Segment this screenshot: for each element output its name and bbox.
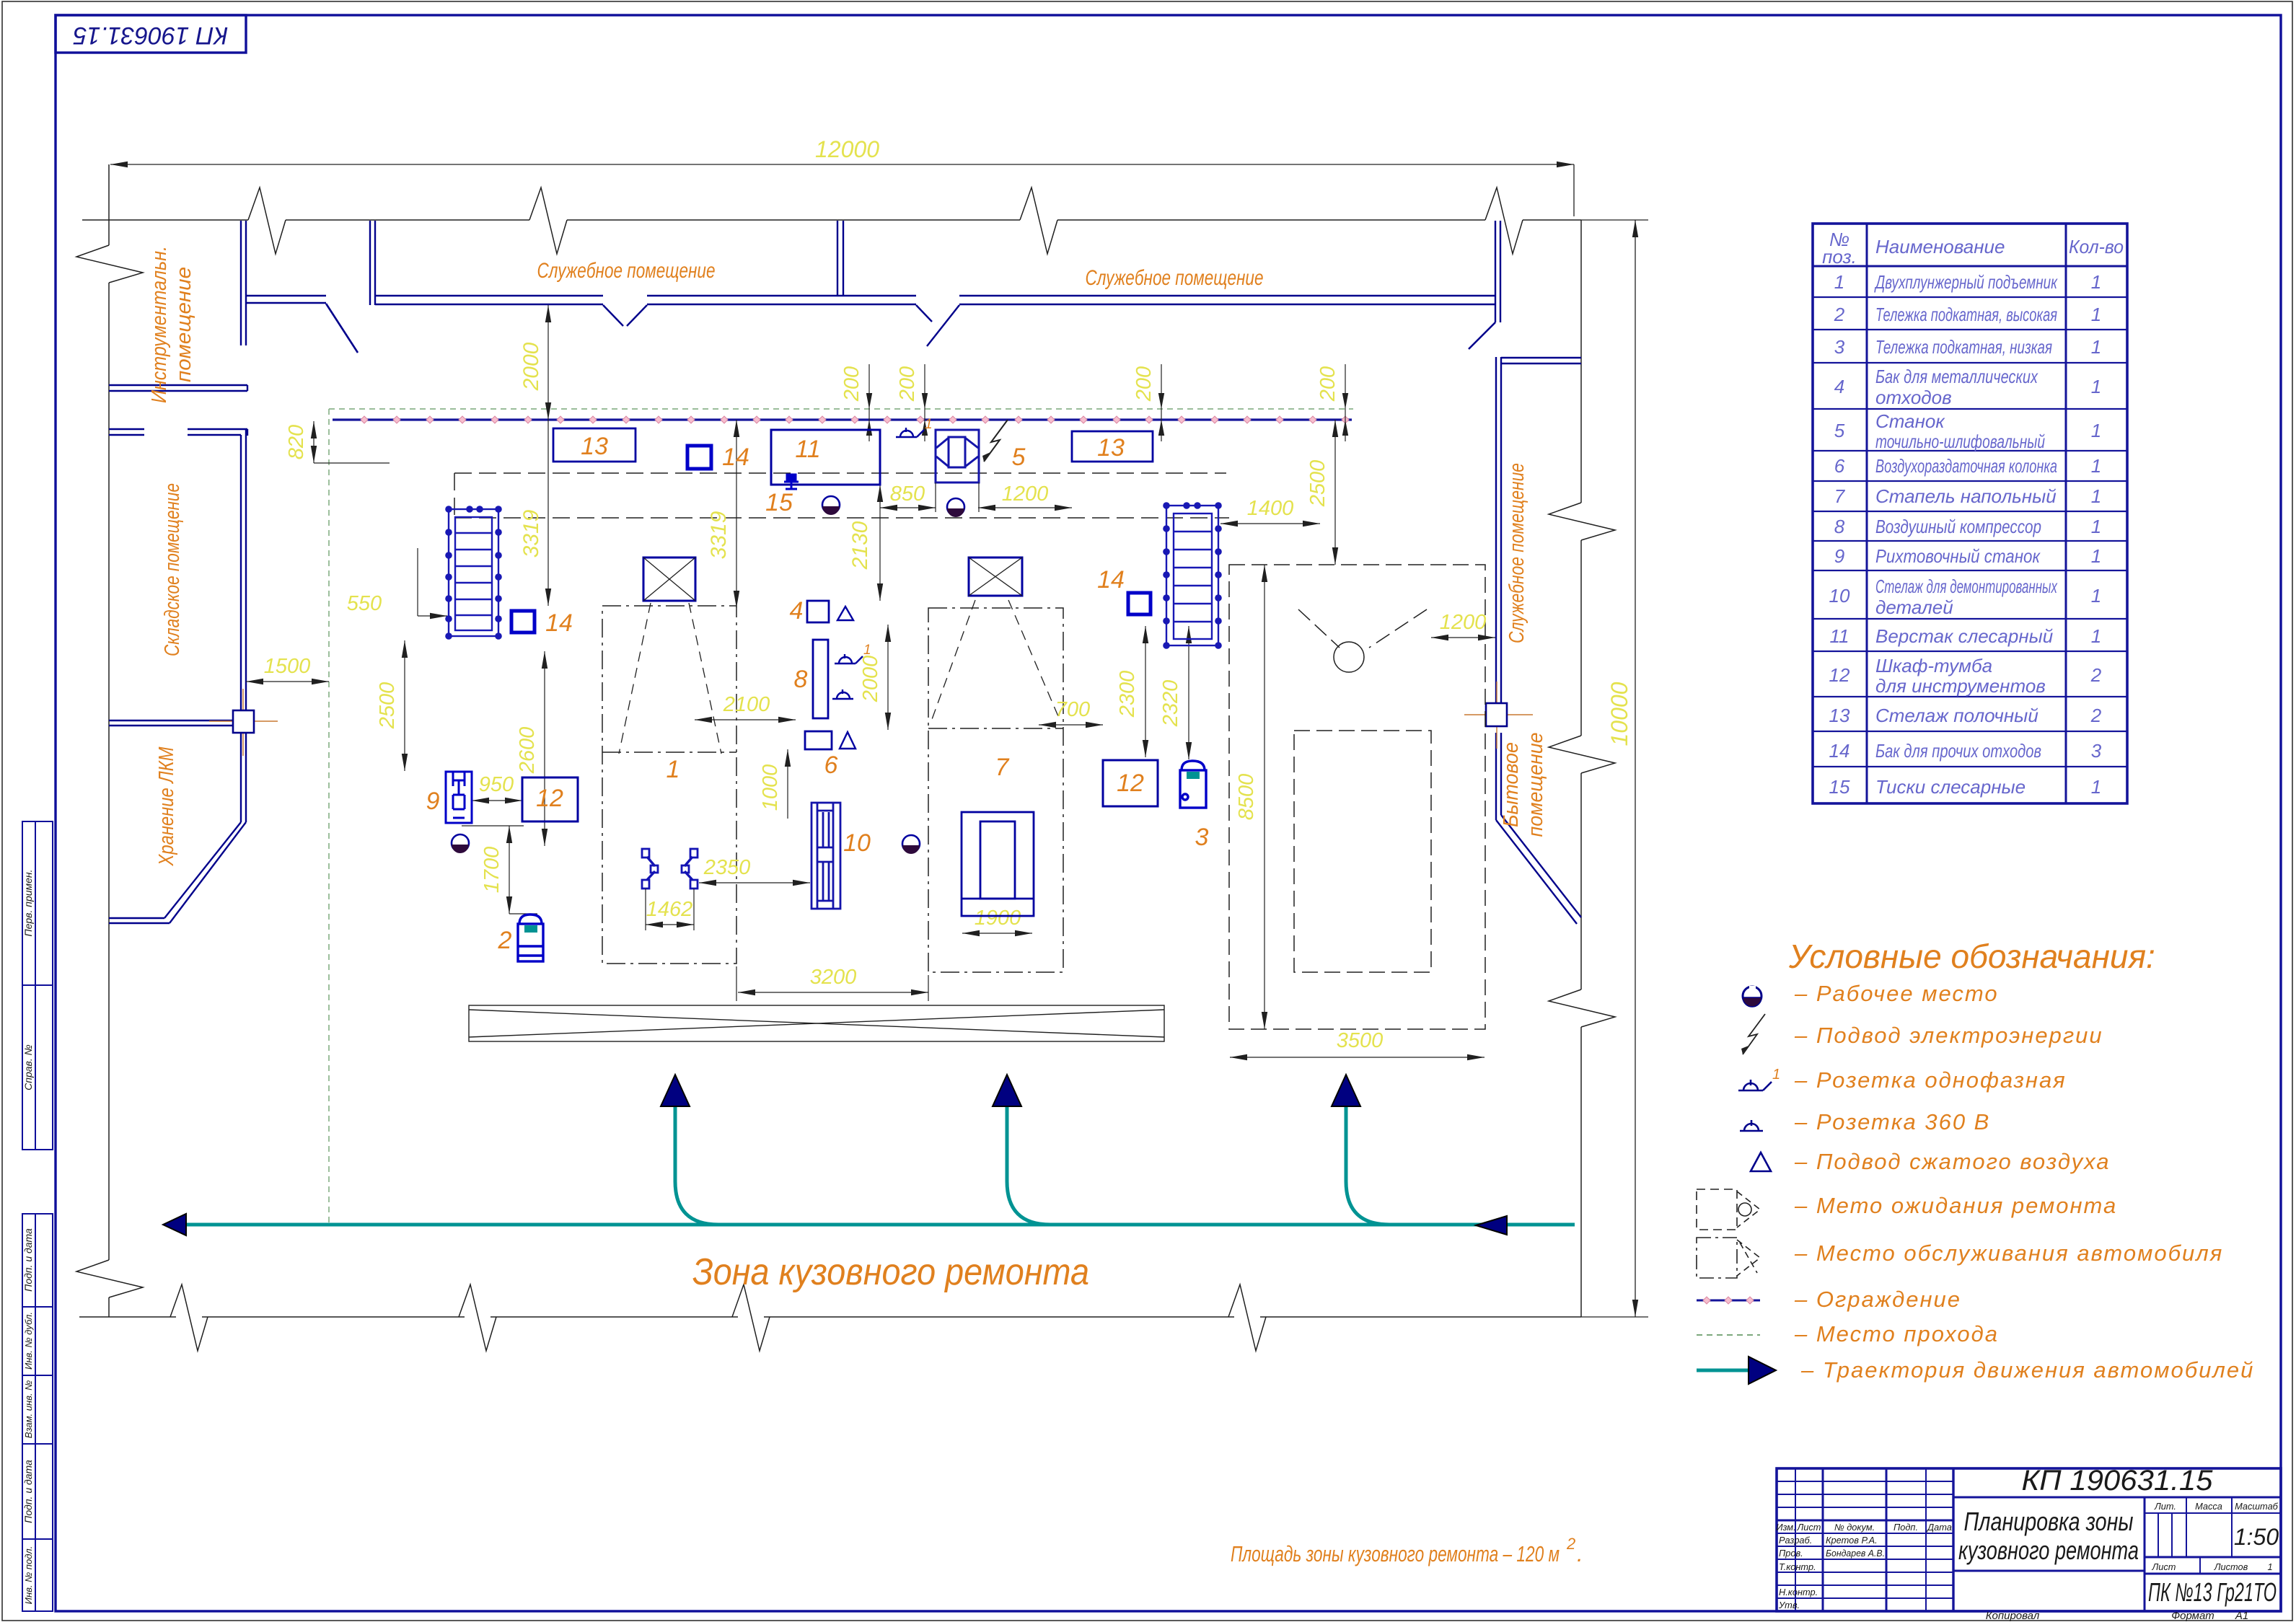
conveyor strip — [469, 1005, 1164, 1041]
svg-text:Разраб.: Разраб. — [1779, 1535, 1812, 1546]
dim 2130 — [879, 485, 881, 601]
legend: розетка однофазная symbol — [1738, 1080, 1772, 1090]
svg-text:Изм.: Изм. — [1776, 1522, 1795, 1533]
dim 2000 right — [887, 625, 889, 730]
svg-text:2000: 2000 — [859, 656, 882, 703]
svg-text:11: 11 — [795, 436, 820, 463]
svg-text:8500: 8500 — [1235, 774, 1258, 821]
svg-text:3500: 3500 — [1337, 1029, 1384, 1052]
svg-text:Масса: Масса — [2195, 1501, 2222, 1512]
svg-text:1: 1 — [2091, 625, 2101, 647]
dim 8500 — [1264, 565, 1265, 1029]
svg-text:ПК №13 Гр21ТО: ПК №13 Гр21ТО — [2148, 1577, 2277, 1607]
svg-text:2350: 2350 — [703, 856, 751, 879]
svg-text:1500: 1500 — [264, 655, 311, 678]
svg-text:1200: 1200 — [1002, 482, 1049, 506]
equipment specification table — [1813, 224, 2127, 803]
break zigzag bottom 1 — [170, 1284, 208, 1351]
floor frame machine 7 — [962, 812, 1034, 916]
dim 2000/3319 left chain — [547, 305, 549, 606]
svg-text:2: 2 — [498, 927, 512, 954]
straightening machine 9 — [446, 772, 472, 823]
left margin field: Инв. № дубл. — [22, 1307, 53, 1375]
bin 14 top — [687, 446, 711, 469]
svg-text:1400: 1400 — [1247, 497, 1294, 520]
svg-text:– Розетка 360 В: – Розетка 360 В — [1794, 1109, 1990, 1134]
svg-text:3200: 3200 — [810, 966, 857, 989]
work place circles — [452, 496, 964, 854]
svg-text:3: 3 — [1834, 336, 1845, 358]
svg-text:13: 13 — [581, 433, 608, 460]
socket 360V (lower) — [832, 689, 853, 699]
car place 1 fan dashed lines — [619, 603, 721, 754]
tool cabinet 12 right — [1103, 760, 1158, 806]
svg-text:820: 820 — [285, 425, 308, 459]
svg-text:– Рабочее место: – Рабочее место — [1794, 981, 1999, 1006]
svg-text:Тележка подкатная, низкая: Тележка подкатная, низкая — [1875, 336, 2052, 358]
svg-text:Кол-во: Кол-во — [2069, 236, 2124, 257]
svg-text:1: 1 — [1772, 1067, 1780, 1083]
svg-text:6: 6 — [1834, 455, 1845, 477]
low cart 3 — [1180, 761, 1206, 808]
svg-text:12: 12 — [1829, 664, 1850, 686]
svg-text:Бак для прочих отходов: Бак для прочих отходов — [1875, 740, 2041, 762]
svg-text:помещение: помещение — [1524, 733, 1547, 837]
bin 14 left — [511, 611, 535, 633]
dim 2350 — [699, 882, 810, 883]
equipment strip dashed boundary — [454, 473, 1229, 518]
left margin field: Взам. инв. № — [22, 1375, 53, 1444]
svg-text:2: 2 — [1566, 1535, 1575, 1553]
dim 820 — [314, 421, 390, 463]
fence line with pink markers — [333, 418, 1352, 420]
shelf 13 right — [1072, 431, 1153, 462]
svg-text:Зона кузовного ремонта: Зона кузовного ремонта — [692, 1251, 1089, 1293]
dim 700 — [1039, 724, 1103, 726]
svg-text:12: 12 — [1117, 770, 1144, 797]
waiting place circle — [1334, 642, 1364, 672]
ventilation box 1 — [643, 557, 695, 601]
wall: инструментальное помещение right (upper) — [241, 221, 246, 345]
svg-text:Тележка подкатная, высокая: Тележка подкатная, высокая — [1875, 304, 2057, 325]
svg-text:2130: 2130 — [848, 521, 872, 570]
left margin field: Перв. примен. — [22, 821, 53, 985]
svg-text:1: 1 — [2091, 485, 2101, 507]
svg-text:Подп. и дата: Подп. и дата — [22, 1228, 34, 1292]
dim 1400 — [1220, 523, 1320, 524]
svg-text:Формат: Формат — [2171, 1610, 2214, 1622]
wall: складское bottom — [109, 720, 233, 726]
break zigzag right 3 — [1549, 989, 1615, 1027]
svg-text:Шкаф-тумба: Шкаф-тумба — [1875, 655, 1992, 676]
svg-text:1: 1 — [2091, 376, 2101, 397]
wall: right wing vertical lower + diagonal — [1496, 733, 1581, 924]
svg-text:Утв.: Утв. — [1778, 1600, 1800, 1610]
wall: хранение ЛКМ left lower — [241, 733, 246, 822]
svg-text:8: 8 — [1834, 516, 1845, 537]
building outer walls (thin black with break symbols) — [76, 164, 1615, 1351]
grinding machine 5 — [936, 430, 979, 482]
vise 15 — [784, 475, 799, 489]
left margin field: Инв. № подл. — [22, 1539, 53, 1611]
wall: хранение ЛКМ bottom — [109, 918, 170, 923]
ventilation box 2 — [969, 557, 1022, 596]
legend: место прохода symbol — [1697, 1334, 1760, 1336]
svg-text:200: 200 — [1316, 366, 1340, 402]
svg-text:6: 6 — [824, 752, 838, 779]
air point triangle at 4 — [837, 607, 853, 620]
break zigzag top 1 — [248, 188, 286, 254]
dim 550 — [418, 548, 447, 616]
svg-text:1: 1 — [863, 643, 871, 658]
break zigzag right 1 — [1549, 503, 1615, 540]
svg-text:Лит.: Лит. — [2154, 1501, 2176, 1512]
wall: служебное right east — [1495, 221, 1500, 322]
svg-text:1: 1 — [2267, 1561, 2272, 1572]
legend: траектория движения symbol — [1697, 1369, 1749, 1372]
legend: ограждение symbol — [1697, 1297, 1760, 1304]
svg-text:Бондарев А.В.: Бондарев А.В. — [1826, 1548, 1885, 1559]
svg-text:Служебное помещение: Служебное помещение — [1505, 463, 1529, 643]
svg-text:– Ограждение: – Ограждение — [1794, 1287, 1961, 1312]
wall: складское помещение right — [241, 429, 246, 710]
interior partition walls (navy double lines) — [109, 221, 1581, 924]
svg-text:4: 4 — [790, 597, 804, 625]
svg-text:3319: 3319 — [519, 509, 543, 557]
dim 10000 — [1581, 220, 1648, 1317]
legend: подвод сжатого воздуха symbol — [1751, 1152, 1771, 1171]
dim 1462 — [646, 924, 694, 925]
svg-text:15: 15 — [1829, 776, 1850, 798]
compressor 8 — [813, 640, 828, 718]
svg-text:Служебное помещение: Служебное помещение — [537, 259, 716, 283]
dim 3319 (second) — [736, 420, 737, 608]
svg-text:Пров.: Пров. — [1779, 1548, 1803, 1559]
dim 1200 right — [1431, 637, 1495, 638]
wall: инструментальное bottom — [109, 385, 247, 391]
svg-text:14: 14 — [1097, 566, 1125, 594]
svg-text:Служебное помещение: Служебное помещение — [1086, 266, 1264, 290]
wall right — [1580, 220, 1582, 1317]
svg-text:Лист: Лист — [2152, 1561, 2176, 1572]
break zigzag left 2 — [76, 1260, 143, 1297]
svg-text:1200: 1200 — [1440, 611, 1487, 634]
dim 950 — [472, 800, 522, 801]
left margin field: Подп. и дата (upper) — [22, 1214, 53, 1307]
svg-text:.: . — [1577, 1541, 1583, 1566]
wall: служебное right bottom — [845, 296, 1495, 304]
left margin field: Подп. и дата (lower) — [22, 1444, 53, 1539]
waiting place dashed zone — [1229, 565, 1485, 1029]
wall: right wing vertical upper — [1496, 357, 1501, 710]
svg-text:Воздушный компрессор: Воздушный компрессор — [1875, 516, 2041, 537]
door leaf right room — [927, 305, 959, 346]
svg-text:850: 850 — [890, 482, 925, 506]
dim 1000 — [787, 749, 788, 819]
high cart 2 — [518, 914, 543, 961]
svg-text:кузовного ремонта: кузовного ремонта — [1958, 1535, 2139, 1565]
air column 6 — [805, 731, 832, 749]
dim 3200 — [738, 992, 928, 993]
dim 1900 — [962, 933, 1032, 934]
svg-text:Двухплунжерный подъемник: Двухплунжерный подъемник — [1874, 271, 2058, 293]
svg-text:200: 200 — [840, 366, 863, 402]
svg-text:1700: 1700 — [480, 847, 503, 894]
svg-text:1: 1 — [2091, 304, 2101, 325]
svg-text:5: 5 — [1834, 420, 1845, 441]
svg-text:Стелаж для демонтированных: Стелаж для демонтированных — [1875, 576, 2058, 597]
rack left (ladder with posts) — [449, 509, 498, 636]
door jambs центр room — [603, 305, 623, 326]
svg-text:2500: 2500 — [376, 682, 399, 730]
wall: служебное центр bottom — [375, 296, 845, 304]
svg-text:3319: 3319 — [707, 511, 731, 559]
svg-text:2: 2 — [1834, 304, 1845, 325]
svg-text:14: 14 — [1829, 740, 1850, 762]
svg-text:помещение: помещение — [172, 267, 195, 382]
column with axis marks (left) — [209, 689, 278, 756]
car place 2 fan dashed lines — [931, 600, 1060, 721]
svg-text:7: 7 — [995, 754, 1010, 781]
dim 1200 center — [978, 507, 1072, 508]
svg-text:1: 1 — [925, 417, 933, 432]
wall: хранение ЛКМ diagonal — [164, 822, 246, 923]
svg-text:– Мето ожидания ремонта: – Мето ожидания ремонта — [1794, 1193, 2117, 1218]
svg-text:Инв. № дубл.: Инв. № дубл. — [23, 1312, 34, 1370]
svg-text:8: 8 — [794, 666, 808, 693]
top-left stamp box — [56, 15, 246, 53]
wall: lobby horizontal — [247, 296, 326, 303]
svg-text:поз.: поз. — [1822, 246, 1857, 268]
svg-text:1: 1 — [2091, 585, 2101, 607]
dim 12000 — [110, 164, 1574, 216]
two-plunger lift 1 (arms) — [647, 857, 692, 880]
socket single-phase (upper) — [835, 654, 863, 664]
dim 1500 — [246, 681, 329, 682]
legend: подвод электроэнергии symbol — [1743, 1014, 1765, 1054]
shelf 13 left — [553, 428, 635, 462]
svg-text:Планировка зоны: Планировка зоны — [1964, 1507, 2134, 1536]
dim 2600 — [544, 651, 545, 846]
car place 1 dash-dot zone — [602, 606, 736, 964]
title block (GOST) — [1777, 1468, 2281, 1611]
dims 200 (four) — [869, 364, 1345, 441]
svg-text:– Подвод сжатого воздуха: – Подвод сжатого воздуха — [1794, 1149, 2111, 1174]
svg-text:9: 9 — [1834, 545, 1844, 567]
legend: место обслуживания автомобиля symbol — [1697, 1238, 1760, 1278]
wall top — [82, 219, 1581, 221]
wall left — [108, 164, 110, 1317]
wall: служебное центр left — [370, 221, 375, 305]
legend: розетка 360 В symbol — [1740, 1120, 1763, 1131]
green passage dotted line — [329, 409, 1353, 1226]
svg-text:деталей: деталей — [1875, 596, 1953, 618]
bin 4 — [807, 601, 829, 622]
bin 14 center — [1128, 593, 1151, 614]
wall: between служебными — [837, 221, 843, 296]
column with axis marks (right) — [1464, 682, 1533, 749]
svg-text:Рихтовочный станок: Рихтовочный станок — [1875, 545, 2041, 567]
svg-text:№ докум.: № докум. — [1834, 1522, 1875, 1533]
svg-text:2: 2 — [2090, 664, 2102, 686]
socket single-phase (top near fence) — [896, 428, 924, 437]
svg-text:2000: 2000 — [519, 342, 543, 391]
svg-text:2: 2 — [2090, 705, 2102, 726]
left margin field: Справ. № — [22, 985, 53, 1150]
air point triangle at 6 — [840, 732, 855, 749]
svg-text:Инв. № подл.: Инв. № подл. — [23, 1546, 34, 1605]
svg-text:Копировал: Копировал — [1986, 1610, 2040, 1622]
svg-text:14: 14 — [722, 444, 749, 471]
dim 2320 — [1188, 626, 1189, 759]
svg-text:Станок: Станок — [1875, 410, 1945, 432]
legend: место ожидания ремонта symbol — [1697, 1189, 1760, 1230]
svg-text:Условные обозначания:: Условные обозначания: — [1788, 938, 2155, 975]
svg-text:5: 5 — [1012, 444, 1026, 471]
svg-text:3: 3 — [2091, 740, 2102, 762]
svg-text:Подп. и дата: Подп. и дата — [22, 1460, 34, 1523]
break zigzag bottom 3 — [732, 1284, 770, 1351]
svg-text:– Траектория движения автомоб: – Траектория движения автомобилей — [1800, 1357, 2254, 1383]
svg-text:для инструментов: для инструментов — [1875, 675, 2046, 697]
svg-text:Бытовое: Бытовое — [1500, 742, 1523, 827]
svg-text:1: 1 — [2091, 776, 2101, 798]
svg-text:1:50: 1:50 — [2234, 1524, 2279, 1550]
door leaf east wing — [1469, 322, 1495, 349]
dismantled parts rack 10 — [811, 803, 840, 909]
svg-text:1: 1 — [2091, 271, 2101, 293]
svg-text:Стелаж полочный: Стелаж полочный — [1875, 705, 2038, 726]
break zigzag bottom 2 — [459, 1284, 496, 1351]
legend: рабочее место symbol — [1743, 986, 1761, 1007]
svg-text:Лист: Лист — [1797, 1522, 1821, 1533]
svg-text:550: 550 — [347, 592, 382, 615]
svg-text:Масштаб: Масштаб — [2235, 1501, 2279, 1512]
svg-text:отходов: отходов — [1875, 387, 1952, 408]
car place 2 dash-dot zone — [928, 608, 1063, 972]
break zigzag top 2 — [529, 188, 567, 254]
dim 2100 — [695, 719, 796, 720]
svg-text:Складское помещение: Складское помещение — [161, 483, 184, 656]
svg-text:Хранение ЛКМ: Хранение ЛКМ — [155, 746, 178, 867]
power lightning at 5 — [984, 420, 1008, 462]
workbench 11 — [771, 430, 880, 485]
svg-text:2500: 2500 — [1306, 460, 1329, 508]
svg-text:1: 1 — [667, 756, 680, 783]
svg-text:14: 14 — [545, 609, 573, 637]
wall: складское top — [109, 429, 247, 436]
car trajectory teal lines — [171, 1105, 1575, 1225]
svg-text:2300: 2300 — [1116, 671, 1139, 718]
svg-text:1000: 1000 — [759, 764, 782, 811]
svg-text:– Место обслуживания автомоби: – Место обслуживания автомобиля — [1794, 1240, 2223, 1266]
svg-text:10: 10 — [843, 829, 871, 857]
svg-text:Воздухораздаточная колонка: Воздухораздаточная колонка — [1875, 455, 2057, 477]
door leaf lobby — [326, 304, 358, 353]
svg-text:13: 13 — [1829, 705, 1850, 726]
svg-text:Верстак слесарный: Верстак слесарный — [1875, 625, 2053, 647]
svg-text:200: 200 — [1132, 366, 1156, 402]
svg-text:15: 15 — [765, 489, 793, 516]
svg-text:– Подвод электроэнергии: – Подвод электроэнергии — [1794, 1023, 2103, 1048]
break zigzag bottom 4 — [1228, 1284, 1266, 1351]
dim 850 — [880, 507, 936, 508]
rack right (ladder with posts) — [1166, 506, 1218, 645]
svg-text:Кретов Р.А.: Кретов Р.А. — [1826, 1535, 1878, 1546]
tool cabinet 12 left — [522, 777, 578, 821]
wall: right wing horizontal — [1501, 358, 1581, 363]
svg-text:700: 700 — [1055, 698, 1090, 721]
svg-text:– Розетка однофазная: – Розетка однофазная — [1794, 1067, 2067, 1093]
svg-text:1462: 1462 — [646, 898, 693, 921]
dim 2300 — [1145, 626, 1146, 757]
svg-text:– Место прохода: – Место прохода — [1794, 1321, 1999, 1346]
svg-text:Бак для металлических: Бак для металлических — [1875, 366, 2038, 387]
dim 1700 — [509, 826, 510, 914]
svg-text:2320: 2320 — [1159, 680, 1182, 728]
trajectory arrowheads — [163, 1214, 186, 1235]
svg-text:1: 1 — [1834, 271, 1844, 293]
svg-text:Инструментальн.: Инструментальн. — [148, 246, 171, 403]
dim 2500 left — [404, 640, 405, 771]
svg-text:Справ. №: Справ. № — [22, 1044, 34, 1090]
svg-text:Стапель напольный: Стапель напольный — [1875, 485, 2057, 507]
svg-text:Дата: Дата — [1926, 1522, 1952, 1533]
break zigzag right 2 — [1549, 736, 1615, 773]
svg-text:1: 1 — [2091, 336, 2101, 358]
svg-text:Тиски слесарные: Тиски слесарные — [1875, 776, 2026, 798]
svg-text:точильно-шлифовальный: точильно-шлифовальный — [1875, 431, 2045, 452]
svg-text:Н.контр.: Н.контр. — [1779, 1587, 1818, 1597]
svg-text:1: 1 — [2091, 516, 2101, 537]
svg-text:7: 7 — [1834, 485, 1846, 507]
svg-text:1900: 1900 — [975, 907, 1021, 930]
svg-text:13: 13 — [1097, 434, 1125, 462]
svg-text:А1: А1 — [2235, 1610, 2248, 1622]
svg-text:200: 200 — [896, 366, 919, 402]
svg-text:2100: 2100 — [723, 693, 770, 716]
svg-text:10000: 10000 — [1606, 682, 1632, 746]
wall bottom — [79, 1316, 1581, 1318]
svg-text:1: 1 — [2091, 545, 2101, 567]
svg-text:9: 9 — [426, 788, 440, 815]
svg-text:12000: 12000 — [815, 136, 879, 162]
break zigzag left 1 — [76, 245, 143, 283]
svg-text:12: 12 — [536, 785, 563, 812]
svg-text:Листов: Листов — [2214, 1561, 2248, 1572]
break zigzag top 4 — [1485, 188, 1523, 254]
svg-text:Т.контр.: Т.контр. — [1779, 1561, 1816, 1572]
svg-text:1: 1 — [2091, 455, 2101, 477]
svg-text:КП 190631.15: КП 190631.15 — [2022, 1465, 2214, 1497]
svg-text:3: 3 — [1195, 824, 1209, 851]
svg-text:11: 11 — [1830, 625, 1849, 647]
dim 3500 — [1230, 1057, 1485, 1058]
svg-text:2600: 2600 — [516, 727, 539, 775]
svg-text:КП 190631.15: КП 190631.15 — [73, 22, 228, 49]
svg-text:10: 10 — [1829, 585, 1850, 607]
svg-text:4: 4 — [1834, 376, 1844, 397]
svg-text:Подп.: Подп. — [1893, 1522, 1918, 1533]
svg-text:Наименование: Наименование — [1875, 236, 2005, 257]
break zigzag top 3 — [1020, 188, 1057, 254]
svg-text:Площадь зоны кузовного ремонта: Площадь зоны кузовного ремонта – 120 м — [1231, 1541, 1560, 1566]
svg-text:Взам. инв. №: Взам. инв. № — [23, 1380, 34, 1438]
svg-text:Перв. примен.: Перв. примен. — [22, 869, 34, 936]
dim 2500 right — [1334, 420, 1336, 565]
svg-text:950: 950 — [479, 773, 514, 796]
svg-text:1: 1 — [2091, 420, 2101, 441]
